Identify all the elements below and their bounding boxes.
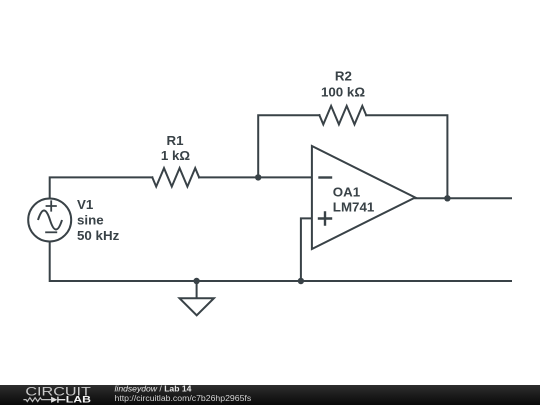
svg-text:V1: V1: [77, 197, 94, 212]
svg-text:100 kΩ: 100 kΩ: [321, 84, 365, 99]
wire: bottom rail: [50, 242, 511, 282]
wire: op-amp output: [415, 197, 511, 199]
junction node: ground: [193, 278, 199, 284]
svg-text:sine: sine: [77, 213, 104, 228]
op-amp inverting input mark: [318, 176, 332, 178]
footer bar: [0, 385, 540, 405]
svg-text:http://circuitlab.com/c7b26hp2: http://circuitlab.com/c7b26hp2965fs: [115, 393, 252, 403]
junction node: non-inverting to rail: [298, 278, 304, 284]
CircuitLab logo resistor zigzag: [23, 398, 51, 402]
CircuitLab logo diode: [51, 397, 57, 403]
ground symbol: [180, 298, 214, 315]
svg-text:LM741: LM741: [333, 200, 375, 215]
wire: R1 right to op-amp inverting input: [199, 176, 312, 178]
wire: V1 top to R1 left (node A): [50, 177, 153, 198]
svg-text:R2: R2: [335, 69, 352, 84]
V1 minus mark: [45, 231, 57, 233]
voltage source V1 circle: [28, 199, 71, 242]
wire: non-inverting input stub: [301, 218, 312, 281]
resistor R1: [152, 168, 199, 187]
V1 sine wave: [38, 211, 62, 230]
svg-text:R1: R1: [166, 133, 184, 148]
junction node: output: [444, 195, 450, 201]
op-amp OA1 triangle: [312, 146, 415, 249]
svg-text:OA1: OA1: [333, 184, 361, 199]
junction node: R1/R2/op-amp inverting: [255, 174, 261, 180]
svg-text:50 kHz: 50 kHz: [77, 228, 120, 243]
svg-text:1 kΩ: 1 kΩ: [161, 148, 191, 163]
ground stub: [196, 281, 198, 298]
wire: R2 right to output vertical: [366, 115, 447, 198]
op-amp non-inverting input mark: [318, 211, 332, 225]
V1 plus mark: [46, 200, 57, 211]
resistor R2: [319, 106, 366, 125]
wire: feedback left vertical (node B): [258, 115, 319, 177]
svg-text:LAB: LAB: [66, 395, 91, 405]
